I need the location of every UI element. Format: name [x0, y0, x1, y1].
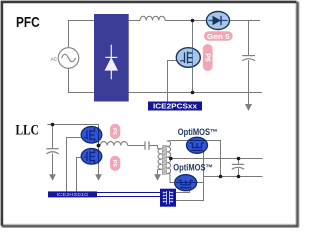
- wire PFC mosfet source: [192, 66, 194, 93]
- svg-text:PFC: PFC: [16, 15, 40, 31]
- wire secondary leads: [167, 141, 170, 174]
- SR MOSFET lower (OptiMOS): [175, 175, 197, 191]
- wire AC bottom: [69, 68, 95, 92]
- LLC high-side MOSFET: [81, 127, 102, 144]
- transformer core: [163, 146, 167, 175]
- PFC output capacitor: [242, 56, 255, 61]
- node: out cap top: [237, 157, 241, 161]
- resonant capacitor Cr: [145, 141, 149, 149]
- wire LLC bulk cap branch: [52, 125, 54, 149]
- wire inductor to diode: [165, 20, 207, 22]
- wire bridge to inductor: [129, 20, 140, 22]
- LLC bulk capacitor: [46, 149, 58, 154]
- wire SR2 gate hook: [176, 191, 190, 193]
- PFC output arrow: [245, 104, 252, 111]
- controller ICE2PCSxx: [148, 102, 202, 111]
- svg-text:OptiMOS™: OptiMOS™: [178, 127, 218, 137]
- PFC MOSFET Q1: [176, 48, 200, 68]
- node: PFC gnd: [191, 91, 195, 95]
- wire secondary bottom to SR2: [170, 174, 175, 183]
- wire LLC gate lower: [77, 158, 83, 192]
- wire SR2 to vertical: [197, 182, 204, 184]
- label Gen 5: [204, 31, 233, 41]
- LLC output capacitor: [232, 164, 244, 169]
- svg-text:LLC: LLC: [16, 123, 39, 139]
- AC source V1: [58, 48, 79, 69]
- wire PFC bottom rail: [129, 92, 263, 94]
- gate driver IC: [160, 189, 176, 207]
- controller ICE2HS01G: [48, 191, 97, 198]
- node: SR1 return: [219, 175, 223, 179]
- ground arrow (primary): [154, 174, 161, 181]
- ground arrow (bulk cap): [49, 174, 56, 181]
- wire LLC out top rail: [171, 158, 263, 160]
- wire PFC gate: [168, 61, 177, 102]
- wire AC top: [69, 21, 95, 48]
- wire LLC out bottom rail: [204, 176, 263, 178]
- label P6 (LLC upper): [110, 124, 120, 139]
- wire controller to driver bus: [97, 193, 160, 197]
- node: LLC input: [51, 123, 55, 127]
- bridge diode symbol: [105, 45, 117, 80]
- ground arrow (half-bridge): [95, 174, 102, 181]
- svg-text:AC: AC: [51, 57, 58, 62]
- node: out cap bottom: [237, 175, 241, 179]
- resonant inductor Lr: [100, 142, 127, 146]
- transformer T1 secondary: [167, 141, 171, 174]
- svg-text:P6: P6: [203, 53, 210, 62]
- wire LLC top rail: [47, 125, 98, 146]
- svg-text:Gen 5: Gen 5: [207, 32, 230, 41]
- wire LLC out cap: [238, 159, 240, 165]
- svg-text:ICE2PCSxx: ICE2PCSxx: [153, 103, 197, 110]
- wire tank: [128, 145, 145, 147]
- inductor L1 (PFC boost choke): [140, 16, 165, 20]
- wire primary leads: [158, 149, 162, 170]
- label P6 (LLC lower): [110, 156, 120, 171]
- wire PFC mosfet drain: [192, 21, 194, 50]
- node: boost node: [191, 19, 195, 23]
- node: half-bridge midpoint: [97, 144, 101, 148]
- svg-text:P6: P6: [111, 128, 117, 135]
- wire secondary top to SR1: [170, 141, 221, 177]
- wire LLC gate upper: [67, 138, 83, 192]
- wire primary bottom: [157, 170, 159, 176]
- wire LLC halfbridge source: [98, 146, 100, 175]
- boost diode D1: [207, 12, 230, 30]
- transformer T1 primary: [158, 149, 162, 170]
- wire diode to corner: [230, 20, 261, 22]
- LLC low-side MOSFET: [81, 149, 102, 165]
- label P6 (PFC): [203, 44, 213, 71]
- node: center tap: [169, 157, 173, 161]
- wire SR gates vertical: [176, 150, 204, 201]
- svg-text:P6: P6: [111, 160, 117, 167]
- SR MOSFET upper (OptiMOS): [187, 137, 208, 153]
- bridge rectifier: [94, 14, 129, 102]
- svg-text:OptiMOS™: OptiMOS™: [173, 162, 213, 172]
- wire PFC cap branch: [248, 21, 250, 56]
- svg-text:ICE2HS01G: ICE2HS01G: [57, 192, 89, 198]
